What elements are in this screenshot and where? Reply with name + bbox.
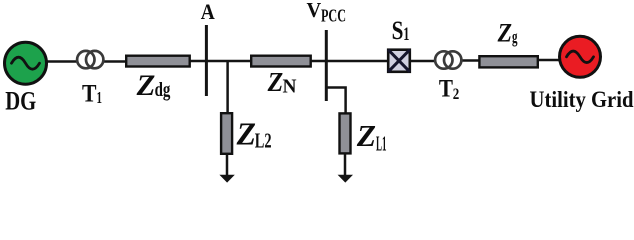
svg-text:g: g: [512, 26, 518, 46]
svg-text:Z: Z: [236, 115, 256, 151]
svg-text:Z: Z: [267, 66, 284, 97]
ground arrow ZL1: [338, 175, 353, 183]
ground arrow ZL2: [219, 175, 234, 183]
wire branch from VPCC bus to ZL1: [326, 88, 345, 114]
svg-text:A: A: [201, 0, 215, 24]
wire S1 to T2: [410, 60, 436, 63]
svg-text:L2: L2: [255, 129, 272, 153]
wire DG to T1: [46, 60, 78, 63]
source Utility Grid: [560, 36, 601, 77]
svg-text:1: 1: [97, 88, 103, 107]
svg-text:dg: dg: [155, 80, 171, 101]
wire branch to ZL2: [226, 61, 229, 113]
bus VPCC: [325, 30, 328, 101]
transformer T2: [435, 51, 461, 68]
label Zdg: [136, 69, 171, 102]
svg-text:2: 2: [453, 86, 460, 103]
label T1: [82, 79, 102, 108]
transformer T1: [77, 51, 103, 68]
impedance Zdg: [126, 56, 190, 67]
wire Zg to Utility Grid: [537, 59, 560, 62]
generator DG: [5, 42, 47, 84]
svg-text:1: 1: [403, 25, 409, 45]
label VPCC: [307, 0, 347, 26]
svg-text:T: T: [82, 79, 97, 108]
impedance ZN: [251, 56, 311, 67]
label S1: [392, 15, 410, 45]
svg-text:S: S: [392, 15, 404, 45]
wire ZL2 to ground: [226, 154, 229, 177]
svg-text:Z: Z: [136, 69, 156, 102]
label T2: [439, 75, 459, 103]
wire ZL1 to ground: [344, 153, 347, 177]
svg-text:L1: L1: [376, 132, 387, 156]
svg-text:T: T: [439, 75, 453, 102]
svg-text:Z: Z: [497, 18, 512, 48]
load ZL1: [340, 113, 351, 153]
label ZL1: [356, 119, 387, 156]
label Zg: [497, 18, 518, 48]
label ZN: [267, 66, 297, 97]
bus A: [205, 25, 208, 96]
svg-text:V: V: [307, 0, 322, 22]
svg-text:N: N: [283, 76, 297, 97]
svg-text:Z: Z: [356, 119, 376, 153]
wire T2 to Zg: [460, 59, 480, 62]
load ZL2: [221, 113, 232, 154]
svg-text:DG: DG: [5, 85, 36, 115]
label ZL2: [236, 115, 272, 152]
svg-text:Utility Grid: Utility Grid: [530, 87, 634, 113]
switch S1: [388, 50, 410, 72]
svg-text:PCC: PCC: [321, 6, 346, 26]
wire T1 to Zdg: [102, 60, 127, 63]
wire ZN to S1 (through bus VPCC): [310, 60, 388, 63]
impedance Zg: [479, 56, 537, 67]
wire Zdg to ZN (through bus A): [189, 60, 252, 63]
